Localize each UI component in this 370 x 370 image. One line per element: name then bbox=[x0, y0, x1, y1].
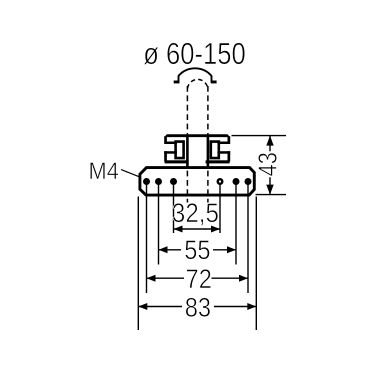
extension line from hole 5 bbox=[235, 183, 237, 265]
mast hidden outline: right dashed line bbox=[207, 86, 209, 203]
arrowhead right 55 bbox=[227, 246, 236, 253]
hole 6 bbox=[245, 178, 252, 185]
arrowhead left 83 bbox=[138, 303, 147, 310]
dimension line 32,5 bbox=[174, 228, 221, 230]
extension line from hole 4 bbox=[219, 183, 221, 233]
mast hidden outline: dashed top ellipse bbox=[187, 79, 208, 88]
clamp strap arc over mast bbox=[179, 68, 212, 83]
extension line from plate right edge bbox=[255, 197, 257, 331]
rail profile: right half body with T-slot bbox=[206, 136, 231, 168]
extension line from plate left edge bbox=[137, 197, 139, 331]
hole 4 bbox=[217, 178, 224, 185]
arrowhead right 72 bbox=[239, 275, 248, 282]
extension line bottom for dimension 43 bbox=[256, 194, 287, 196]
clamp strap left foot bbox=[174, 81, 180, 84]
base plate outline bbox=[140, 168, 254, 196]
hole 3 bbox=[170, 178, 177, 185]
arrowhead left 72 bbox=[147, 275, 156, 282]
arrowhead left 55 bbox=[159, 246, 168, 253]
svg-text:32,5: 32,5 bbox=[172, 199, 219, 228]
arrowhead down 43 bbox=[266, 185, 273, 195]
dimension line 72 bbox=[147, 277, 249, 279]
dimension line 83 bbox=[138, 306, 256, 308]
hole 4 center mark bbox=[219, 180, 221, 182]
extension line from hole 2 bbox=[158, 183, 160, 265]
extension line top for dimension 43 bbox=[232, 135, 287, 137]
hole 1 bbox=[143, 178, 150, 185]
arrowhead right 32,5 bbox=[211, 226, 220, 233]
arrowhead left 32,5 bbox=[174, 226, 183, 233]
hole 2 bbox=[155, 178, 162, 185]
svg-text:M4: M4 bbox=[89, 157, 119, 184]
extension line from hole 3 bbox=[173, 183, 175, 233]
svg-text:43: 43 bbox=[254, 152, 283, 176]
leader line for M4 label bbox=[121, 170, 139, 177]
extension line from hole 6 bbox=[247, 183, 249, 293]
dimension line 55 bbox=[159, 249, 237, 251]
svg-text:55: 55 bbox=[184, 235, 210, 265]
dimension line 43 (vertical) bbox=[269, 136, 271, 195]
arrowhead up 43 bbox=[266, 136, 273, 146]
svg-text:83: 83 bbox=[185, 293, 211, 323]
svg-text:72: 72 bbox=[186, 265, 212, 295]
svg-text:ø 60-150: ø 60-150 bbox=[143, 37, 246, 71]
clamp strap right foot bbox=[211, 81, 217, 84]
mast hidden outline: left dashed line bbox=[186, 86, 188, 203]
rail profile: top bar bbox=[164, 134, 230, 137]
hole 5 bbox=[233, 178, 240, 185]
extension line from hole 1 bbox=[146, 183, 148, 293]
rail profile: left half body with T-slot bbox=[164, 136, 189, 168]
arrowhead right 83 bbox=[247, 303, 256, 310]
